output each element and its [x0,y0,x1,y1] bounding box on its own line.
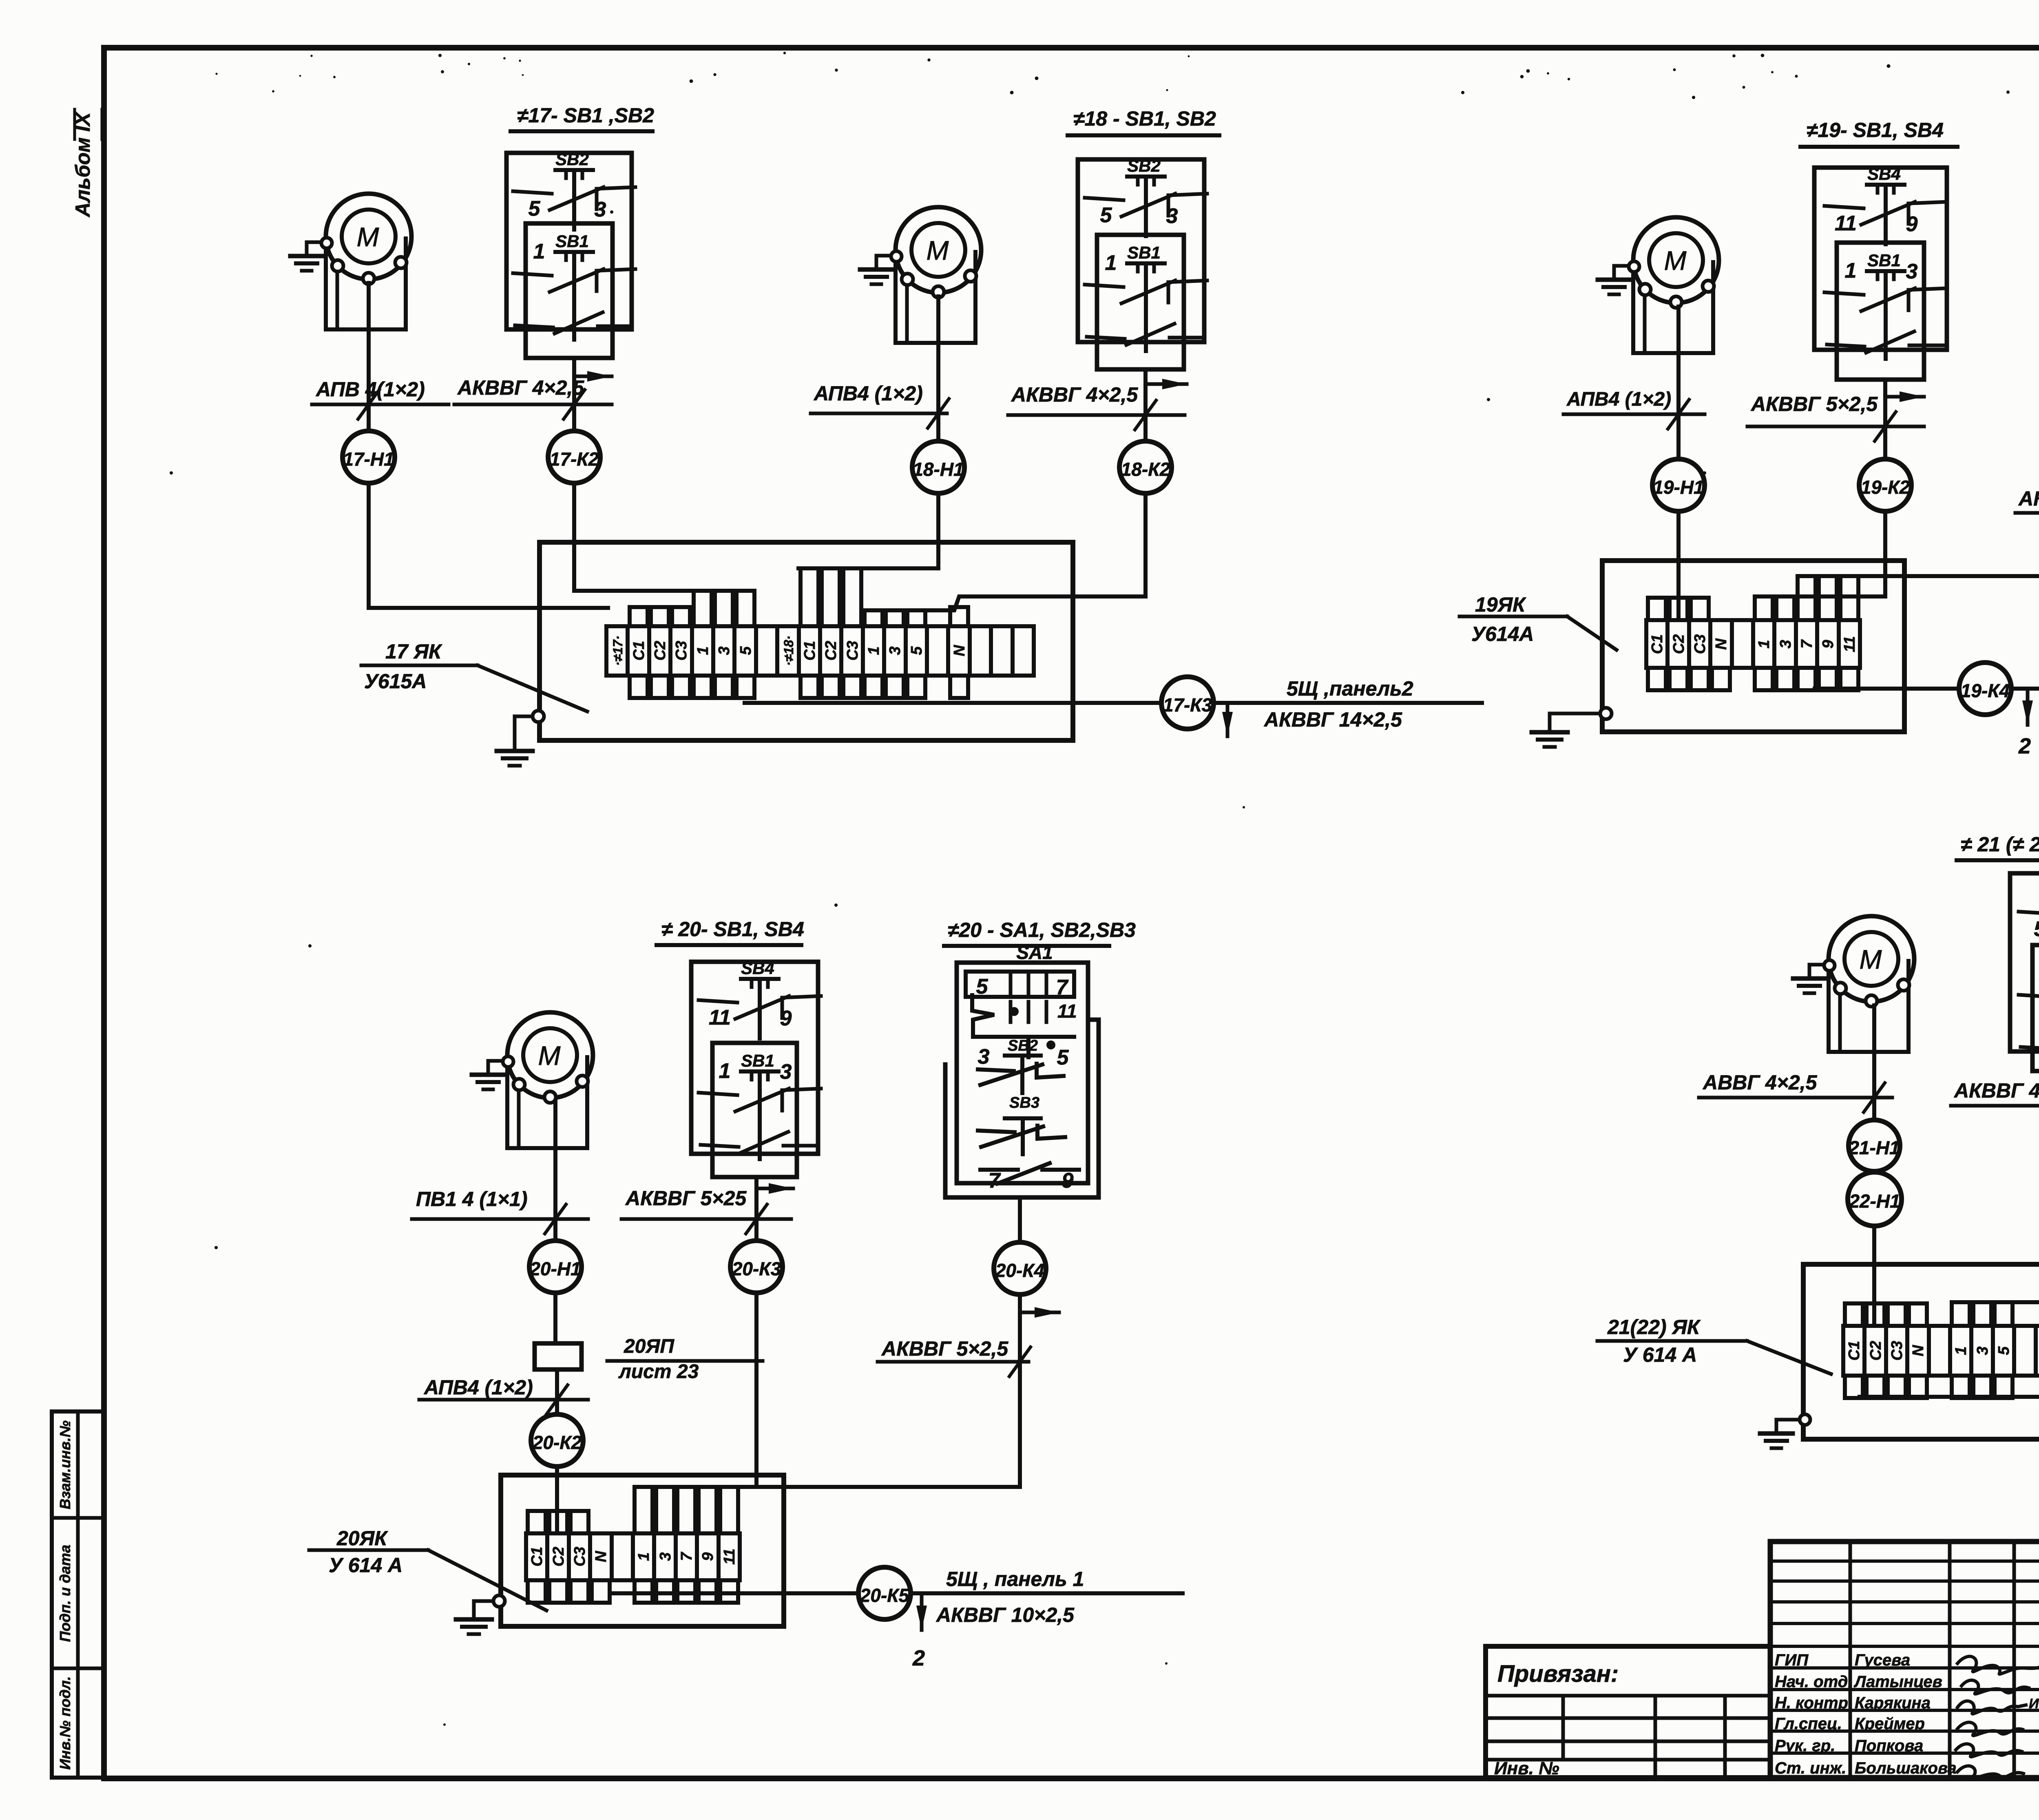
cable label AKVVG 5x2.5 20-K4 [878,1337,1031,1376]
svg-text:2: 2 [2018,734,2031,758]
tall stub [677,1487,695,1533]
svg-text:5: 5 [1100,203,1112,227]
selector switch box #20 SA1,SB2,SB3 [945,963,1099,1197]
svg-text:SB1: SB1 [555,232,589,251]
wire 20-K2 into box to C2 [555,1467,559,1533]
arrow right 19-K2 cable [1888,395,1924,399]
privyazan box [1486,1646,1770,1778]
svg-text:SB1: SB1 [1127,243,1161,262]
push-button box #21(22) SB1,SB2 [2010,873,2039,1071]
svg-text:·≠18·: ·≠18· [781,636,796,666]
svg-text:1: 1 [694,646,712,655]
tall stub [1755,596,1773,620]
tall stub [736,591,754,626]
svg-text:3: 3 [657,1552,674,1561]
svg-text:20ЯП: 20ЯП [624,1336,675,1357]
wire to panel [2011,687,2039,691]
svg-text:У614А: У614А [1471,623,1534,645]
svg-text:Гусева: Гусева [1855,1651,1910,1669]
svg-text:1: 1 [1953,1346,1970,1355]
svg-text:7: 7 [1798,639,1816,649]
svg-text:11: 11 [721,1548,738,1564]
wire to panel [911,1591,1183,1595]
cable label AKVVG 5x2.5 #19 [1747,393,1924,441]
box 17YAK outline [540,542,1073,740]
svg-text:SB1: SB1 [1867,251,1901,270]
wire box19 to 19-K2 [1883,380,1887,459]
svg-text:20-К5: 20-К5 [860,1585,910,1606]
svg-text:3: 3 [1906,260,1918,283]
tall stub [843,568,861,626]
svg-text:Карякина: Карякина [1855,1694,1931,1712]
svg-text:9: 9 [1820,640,1837,648]
cable circle 18-H1 [912,441,964,493]
svg-text:11: 11 [709,1006,731,1029]
motor M #19 [1598,217,1719,353]
svg-text:С3: С3 [1692,634,1709,654]
svg-text:SB2: SB2 [1008,1037,1038,1054]
wire 20-H1 to 20YAP [553,1293,557,1343]
cable circle 19-H1 [1652,459,1705,511]
cable label AKVVG 4x2.5 #17 [454,376,612,419]
tall stub [715,591,733,626]
wire box20 to 20-K3 [754,1177,759,1241]
signature squiggles [1956,1657,2039,1779]
wire 17-H1 down into box [369,483,608,608]
cable circle 19-K4 [1959,663,2011,715]
cable circle 20-K2 [531,1414,583,1467]
svg-text:17-К3: 17-К3 [1163,694,1212,716]
arrow right 17-K2 cable [576,375,612,378]
svg-text:С2: С2 [823,641,840,661]
svg-text:1: 1 [865,646,882,655]
box 19YAK outline [1602,561,1904,732]
svg-text:С2: С2 [1867,1341,1884,1361]
svg-text:·≠17·: ·≠17· [610,636,625,666]
svg-text:С1: С1 [1649,634,1666,654]
cable circle 19-K2 [1859,459,1911,511]
svg-text:1: 1 [533,240,545,263]
19-K3 bus into box to cells 7,9,11 [1798,574,2039,578]
svg-text:5: 5 [2034,917,2039,941]
svg-text:С1: С1 [801,641,818,661]
svg-text:7: 7 [678,1552,695,1561]
wire motor18 to 18-H1 [936,296,940,441]
svg-text:Большакова: Большакова [1855,1759,1957,1777]
svg-text:≠ 20- SB1, SB4: ≠ 20- SB1, SB4 [661,918,804,941]
svg-text:9: 9 [699,1552,717,1561]
svg-text:АКВВГ 4×2,5: АКВВГ 4×2,5 [1011,383,1138,406]
arrow right 18-K2 cable [1148,382,1187,386]
svg-text:≠20 - SA1, SB2,SB3: ≠20 - SA1, SB2,SB3 [948,919,1136,941]
cable circle 20-K3 [730,1241,783,1293]
cable circle 18-K2 [1119,441,1172,493]
svg-text:17-К2: 17-К2 [550,448,599,470]
svg-text:1: 1 [719,1059,731,1083]
svg-text:Привязан:: Привязан: [1497,1661,1619,1687]
junction box 20YAP [535,1343,582,1369]
push-button box #18 SB1,SB2 [1078,156,1207,369]
top stubs C1-C3 19YAK [1648,598,1666,620]
tall stub [886,610,904,626]
svg-text:С2: С2 [652,641,669,661]
svg-text:5: 5 [529,197,541,221]
svg-text:5: 5 [976,975,989,998]
svg-text:АКВВГ 5×2,5: АКВВГ 5×2,5 [1750,393,1878,415]
svg-text:17 ЯК: 17 ЯК [385,640,442,663]
svg-text:3: 3 [887,646,904,655]
svg-text:АПВ 4(1×2): АПВ 4(1×2) [315,378,425,401]
svg-text:SA1: SA1 [1016,942,1053,963]
svg-text:Инв.№ подл.: Инв.№ подл. [57,1676,73,1769]
bottom stubs 19YAK [1648,668,1666,690]
output line to 20-K5 [612,1591,858,1595]
terminal strip 20YAK [526,1533,740,1580]
tall stub [1798,576,1816,620]
stub over N [950,607,968,626]
wire 18-K2 bus to cells 1,3,5 #18 [867,493,1146,610]
svg-text:АКВВГ 5×25: АКВВГ 5×25 [625,1187,747,1210]
terminal strip 17YAK [606,626,1034,676]
tall stub [907,610,925,626]
cable label AKVVG 4x2.5 #18 [1008,383,1185,430]
svg-text:≠17- SB1 ,SB2: ≠17- SB1 ,SB2 [517,104,654,127]
wire 19-K2 bus to cells 1,3 [1755,511,1885,596]
svg-text:17-Н1: 17-Н1 [343,448,394,470]
svg-text:19-К2: 19-К2 [1861,477,1910,498]
tall stub [822,568,840,626]
svg-text:1: 1 [1845,259,1857,283]
wire 17-K2 bus to cells 1,3,5 #17 [574,483,750,591]
svg-text:1: 1 [635,1552,652,1561]
svg-text:3: 3 [780,1060,792,1084]
svg-text:Рук. гр.: Рук. гр. [1775,1737,1835,1755]
wire 19-H1 into box to C2 [1676,511,1681,620]
cable label AKVVG 5x2.5 #20 [621,1187,791,1234]
svg-text:М: М [927,235,949,265]
svg-text:7: 7 [989,1169,1001,1193]
wire 20-K4 down and left [636,1294,1020,1487]
motor M #20 [472,1012,593,1148]
svg-text:С1: С1 [1846,1341,1863,1361]
svg-text:3: 3 [716,646,733,655]
svg-text:3: 3 [1777,640,1794,648]
svg-text:С3: С3 [1889,1341,1906,1361]
tall stub [1840,576,1858,620]
tall stub [801,568,818,626]
svg-text:АКВВГ 4×2,5: АКВВГ 4×2,5 [1953,1079,2039,1102]
svg-text:N: N [1713,638,1730,650]
cable label APV 4(1x2) #17 [312,378,449,419]
arrow right 20-K3 cable [759,1187,793,1191]
svg-text:С2: С2 [550,1547,567,1567]
svg-text:≠19- SB1, SB4: ≠19- SB1, SB4 [1807,119,1944,141]
cable label AKVVG 5x2.5 19-K3 [2015,487,2039,528]
svg-text:АПВ4 (1×2): АПВ4 (1×2) [423,1376,533,1399]
motor M #18 [860,207,981,343]
svg-text:N: N [593,1551,610,1562]
svg-text:Ис.: Ис. [2029,1696,2039,1712]
svg-text:С3: С3 [673,641,690,661]
svg-text:М: М [357,222,379,252]
svg-text:21-Н1: 21-Н1 [1848,1137,1900,1158]
svg-text:Попкова: Попкова [1855,1737,1923,1755]
arrow right 20-K4 cable [1022,1311,1059,1314]
svg-text:≠18 - SB1, SB2: ≠18 - SB1, SB2 [1073,107,1216,130]
wire to panel [1214,701,1482,705]
svg-text:3: 3 [595,198,606,221]
svg-text:М: М [538,1040,561,1071]
svg-text:18-К2: 18-К2 [1121,459,1170,480]
box 20YAK outline [501,1475,784,1626]
svg-text:SB4: SB4 [741,959,774,978]
wire box18 to 18-K2 [1143,369,1148,441]
tall stub [1995,1302,2012,1326]
svg-text:11: 11 [1057,1001,1077,1022]
arrow down #19 output [2026,690,2030,725]
svg-text:SB3: SB3 [1009,1094,1039,1111]
svg-text:5: 5 [1057,1046,1069,1069]
svg-text:АКВВГ 4×2,5: АКВВГ 4×2,5 [457,376,584,399]
svg-text:SB1: SB1 [741,1051,774,1070]
motor M #17 [290,194,411,329]
svg-text:АПВ4 (1×2): АПВ4 (1×2) [813,382,923,405]
svg-text:АКВВГ 5×2,5: АКВВГ 5×2,5 [881,1337,1008,1360]
wire 20YAP to 20-K2 [555,1369,559,1414]
terminal strip 19YAK [1646,620,1860,668]
svg-text:5Щ , панель 1: 5Щ , панель 1 [946,1568,1084,1590]
svg-text:≠ 21 (≠ 22) - SB1, SB2: ≠ 21 (≠ 22) - SB1, SB2 [1961,833,2039,856]
arrow down #17 output [1226,704,1230,736]
push-button box #17 SB1,SB2 [506,150,635,358]
svg-text:9: 9 [780,1007,792,1030]
svg-text:У 614 А: У 614 А [329,1554,402,1577]
svg-text:3: 3 [1166,204,1178,228]
svg-text:20ЯК: 20ЯК [336,1527,388,1550]
wire SA1 box to 20-K4 [1018,1197,1022,1242]
output line to 17-K3 [745,701,1161,705]
svg-text:19-К4: 19-К4 [1961,680,2010,701]
svg-text:5: 5 [908,646,925,655]
svg-text:5Щ ,панель2: 5Щ ,панель2 [1287,677,1413,700]
svg-text:С3: С3 [571,1547,588,1567]
svg-text:N: N [1910,1345,1927,1356]
svg-text:SB2: SB2 [1127,156,1161,175]
wire 21-K2 bus to cells 1,3,5 [1966,1225,2039,1302]
svg-text:3: 3 [1974,1346,1991,1355]
push-button box #20 SB1,SB4 [691,959,821,1177]
wire 20-K3 down to bus [754,1293,759,1487]
svg-text:Гл.спец.: Гл.спец. [1775,1715,1842,1733]
tall stub [1952,1302,1970,1326]
cable circle 20-K4 [994,1242,1046,1294]
cable label APV4 (1x2) #20 [419,1376,588,1414]
ground 17YAK [533,711,544,722]
svg-text:9: 9 [1062,1169,1074,1193]
bottom stubs 20YAK [528,1580,546,1603]
motor M #21(22) [1793,916,1914,1052]
svg-text:18-Н1: 18-Н1 [913,459,964,480]
svg-text:М: М [1860,944,1882,974]
wire motor20 to 20-H1 [553,1102,557,1241]
wire motor21 to 21-H1 [1872,1005,1876,1120]
svg-text:Н. контр.: Н. контр. [1775,1694,1853,1712]
arrow down #20 output [920,1595,924,1630]
svg-text:20-Н1: 20-Н1 [529,1258,581,1279]
top stubs C1-C3 #17 [630,607,648,626]
wire motor17 to 17-H1 [367,283,371,431]
svg-text:С2: С2 [1670,634,1687,654]
tall stub [1973,1302,1991,1326]
cable label APV4 (1x2) #18 [811,382,949,428]
ground 19YAK [1600,708,1612,719]
svg-text:3: 3 [978,1045,990,1069]
push-button box #19 SB1,SB4 [1814,164,1947,380]
wire motor19 to 19-H1 [1676,307,1681,459]
svg-text:У 614 А: У 614 А [1623,1343,1697,1366]
svg-text:Взам.инв.№: Взам.инв.№ [57,1420,73,1509]
tall stub [656,1487,674,1533]
cable circle 20-H1 [529,1241,582,1293]
terminal strip 21YAK [1843,1326,2039,1376]
svg-text:N: N [951,645,968,656]
tall stub [699,1487,717,1533]
svg-text:20-К3: 20-К3 [732,1258,781,1279]
svg-text:С1: С1 [529,1547,546,1567]
svg-text:Ст. инж.: Ст. инж. [1775,1759,1846,1777]
cable circle 17-K2 [548,431,600,483]
cable circle 21-H1 [1849,1120,1900,1171]
output line to 21-K3 22-K3 [1860,1395,2039,1399]
svg-text:2: 2 [912,1646,925,1670]
cable label APV4 (1x2) #19 [1564,389,1705,429]
svg-text:20-К4: 20-К4 [995,1260,1044,1281]
svg-text:АВВГ 4×2,5: АВВГ 4×2,5 [1702,1071,1818,1094]
svg-text:20-К2: 20-К2 [532,1432,582,1453]
svg-text:ПВ1 4 (1×1): ПВ1 4 (1×1) [416,1188,528,1210]
svg-text:М: М [1664,245,1687,276]
cable circle 17-H1 [343,431,395,483]
bottom stubs 17YAK [630,676,648,698]
svg-text:11: 11 [1835,212,1857,235]
margin stamp boxes [52,1411,103,1778]
tall stub [865,610,882,626]
tall stub [1776,596,1794,620]
svg-text:У615А: У615А [364,670,427,693]
svg-text:1: 1 [1756,640,1773,648]
box 21(22)YAK outline [1803,1264,2039,1439]
svg-text:SB4: SB4 [1867,164,1901,183]
title block outline [1770,1539,2039,1544]
svg-text:Креймер: Креймер [1855,1715,1925,1733]
tall stub [1819,576,1837,620]
bottom stubs 21YAK [1845,1376,1863,1398]
svg-text:лист 23: лист 23 [618,1361,699,1383]
ground 20YAK [493,1595,505,1607]
cable label AKVVG 4x2.5 #21 [1951,1079,2039,1120]
svg-text:5: 5 [1995,1346,2012,1355]
tall stub [694,591,712,626]
svg-text:Подп. и дата: Подп. и дата [57,1545,73,1642]
svg-text:Инв. №: Инв. № [1494,1758,1559,1778]
cable circle 20-K5 [858,1567,911,1619]
tall stub [635,1487,652,1533]
wire 18-H1 bus to cells C1-C3 #18 [798,493,938,568]
svg-text:19-Н1: 19-Н1 [1653,477,1704,498]
svg-text:9: 9 [1906,212,1918,236]
svg-text:С3: С3 [844,641,861,661]
top stubs C1-C3 20YAK [528,1511,546,1533]
svg-text:АКВВГ 14×2,5: АКВВГ 14×2,5 [1263,708,1402,731]
wire box17 to 17-K2 [572,358,576,431]
svg-text:7: 7 [1056,976,1069,999]
svg-text:ГИП: ГИП [1775,1651,1809,1669]
svg-text:19ЯК: 19ЯК [1475,593,1526,616]
cable circle 17-K3 [1161,677,1214,729]
svg-text:22-Н1: 22-Н1 [1849,1191,1900,1212]
svg-text:Латынцев: Латынцев [1853,1673,1942,1691]
cable label AVVG 4x2.5 #21 [1699,1071,1892,1112]
tall stub [720,1487,738,1533]
svg-text:С1: С1 [630,641,648,661]
ground 21YAK [1800,1414,1810,1425]
output line to 19-K4 [1815,687,1958,691]
svg-text:21(22) ЯК: 21(22) ЯК [1607,1316,1701,1338]
svg-text:1: 1 [1105,251,1117,275]
top stubs C1..N 21YAK [1845,1303,1863,1326]
cable circle 22-H1 [1848,1172,1902,1226]
cable label PV1 4(1x1) #20 [412,1188,588,1234]
wire 21-H1 into box to C2 [1872,1226,1876,1326]
svg-text:АКВВГ 5×2,5: АКВВГ 5×2,5 [2018,487,2039,510]
svg-text:11: 11 [1841,636,1858,652]
svg-text:АКВВГ 10×2,5: АКВВГ 10×2,5 [935,1604,1075,1626]
svg-text:АПВ4 (1×2): АПВ4 (1×2) [1566,389,1671,410]
svg-text:SB2: SB2 [555,150,589,169]
svg-text:Нач. отд.: Нач. отд. [1775,1673,1852,1691]
svg-text:5: 5 [737,646,754,655]
